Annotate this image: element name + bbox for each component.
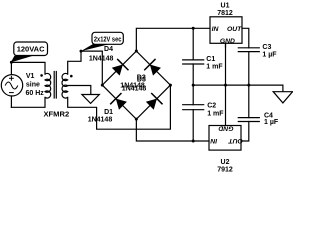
svg-text:OUT: OUT — [227, 26, 242, 33]
svg-text:V1: V1 — [26, 73, 35, 80]
svg-text:C3: C3 — [262, 44, 271, 51]
svg-text:IN: IN — [209, 137, 217, 144]
svg-text:7812: 7812 — [217, 10, 233, 17]
svg-text:IN: IN — [212, 26, 220, 33]
svg-text:60 Hz: 60 Hz — [26, 90, 45, 97]
svg-text:U1: U1 — [221, 3, 230, 10]
svg-text:2x12V sec: 2x12V sec — [94, 34, 122, 43]
svg-text:1 mF: 1 mF — [206, 64, 223, 71]
svg-text:OUT: OUT — [228, 137, 243, 144]
svg-text:C2: C2 — [207, 103, 216, 110]
svg-text:1N4148: 1N4148 — [122, 85, 147, 92]
svg-text:GND: GND — [220, 38, 235, 45]
svg-text:1N4148: 1N4148 — [88, 117, 113, 124]
svg-text:1N4148: 1N4148 — [89, 55, 114, 62]
svg-text:D4: D4 — [104, 46, 113, 53]
svg-text:U2: U2 — [221, 159, 230, 166]
svg-text:120VAC: 120VAC — [17, 45, 45, 54]
svg-text:C1: C1 — [206, 56, 215, 63]
svg-text:D1: D1 — [104, 109, 113, 116]
svg-text:1 mF: 1 mF — [207, 111, 224, 118]
svg-text:GND: GND — [218, 124, 233, 131]
svg-text:1 µF: 1 µF — [262, 52, 277, 59]
svg-text:1 µF: 1 µF — [264, 119, 279, 126]
svg-text:sine: sine — [26, 82, 40, 89]
svg-text:7912: 7912 — [217, 166, 233, 172]
svg-text:XFMR2: XFMR2 — [44, 112, 70, 119]
